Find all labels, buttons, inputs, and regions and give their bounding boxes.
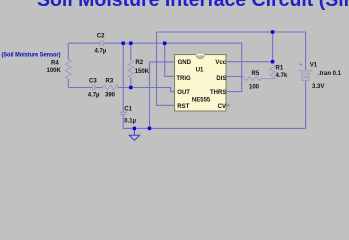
svg-text:R1: R1	[276, 66, 284, 72]
wire: R4 top lead	[67, 43, 69, 59]
node ground tap	[133, 127, 136, 130]
node C2/C1	[122, 42, 125, 45]
wire: DIS pin to R5	[226, 76, 243, 78]
node C2/TRIG	[163, 42, 166, 45]
svg-text:U1: U1	[196, 67, 204, 73]
resistor R5	[243, 77, 260, 81]
resistor R2	[128, 60, 133, 78]
svg-text:(Soil Moisture Sensor): (Soil Moisture Sensor)	[2, 52, 61, 58]
svg-text:4.7k: 4.7k	[276, 73, 288, 79]
wire: GND pin to ground vertical	[150, 62, 175, 128]
svg-text:0.1µ: 0.1µ	[124, 118, 136, 124]
svg-text:C2: C2	[97, 33, 105, 39]
node Vcc/R1	[271, 60, 274, 63]
svg-text:RST: RST	[177, 104, 189, 110]
svg-text:R2: R2	[135, 60, 143, 66]
battery V1	[298, 71, 313, 81]
wire: R1 top to top rail	[272, 32, 274, 62]
wire: Vcc pin to R1 top	[226, 61, 273, 63]
wire: top rail VCC	[157, 31, 306, 33]
svg-text:THRS: THRS	[210, 90, 226, 96]
svg-text:C1: C1	[124, 107, 132, 113]
wire: RST pin up to top rail	[157, 32, 175, 105]
wire: R3 to C3	[95, 87, 103, 89]
svg-text:GND: GND	[178, 60, 192, 66]
svg-text:100: 100	[249, 84, 260, 90]
capacitor C1	[120, 112, 128, 114]
svg-text:V1: V1	[310, 62, 318, 68]
svg-text:OUT: OUT	[177, 90, 190, 96]
svg-text:Soil Moisture Interface Circui: Soil Moisture Interface Circuit (Sim	[37, 0, 349, 11]
battery plus sign	[299, 63, 302, 66]
svg-text:390: 390	[105, 93, 116, 99]
svg-text:R4: R4	[51, 60, 59, 66]
svg-text:4.7µ: 4.7µ	[88, 93, 100, 99]
svg-text:Vcc: Vcc	[215, 60, 226, 66]
resistor R1	[270, 65, 275, 80]
node R2/R3	[129, 86, 132, 89]
wire: TRIG pin to C2 row	[165, 43, 175, 76]
wire: C1 column bottom, bottom rail	[123, 115, 305, 129]
ground	[129, 128, 139, 140]
svg-text:4.7µ: 4.7µ	[95, 49, 107, 55]
svg-text:3.3V: 3.3V	[312, 84, 324, 90]
resistor R3	[103, 85, 119, 90]
wire: R2 bottom lead	[130, 78, 132, 88]
capacitor C2	[100, 40, 103, 46]
svg-text:CV: CV	[218, 104, 226, 110]
svg-text:150K: 150K	[135, 69, 150, 75]
resistor R4	[65, 60, 71, 79]
wire: R5-R1 junction lead	[261, 78, 273, 80]
wire: C1 column top	[122, 43, 124, 112]
svg-text:DIS: DIS	[216, 76, 226, 82]
svg-text:.tran 0.1: .tran 0.1	[318, 71, 342, 77]
wire: C2 row left (R4 top to C2 plate)	[68, 42, 100, 44]
svg-text:100K: 100K	[47, 68, 62, 74]
svg-text:NE555: NE555	[192, 98, 211, 104]
svg-text:R3: R3	[106, 79, 114, 85]
wire: battery top lead	[305, 32, 307, 70]
wire: C3 to R4 bottom	[68, 87, 92, 89]
wire: R4 bottom lead	[67, 79, 69, 88]
wire: battery bottom lead	[305, 81, 307, 128]
svg-text:TRIG: TRIG	[176, 76, 191, 82]
wire: C2 row right (C2 plate to corner, down to THRS)	[103, 43, 242, 91]
node gnd-wire tap	[148, 127, 151, 130]
node C2/R2	[129, 42, 132, 45]
svg-text:R5: R5	[252, 71, 260, 77]
capacitor C3	[93, 85, 95, 91]
node top rail / R1	[271, 30, 274, 33]
wire: CV stub	[226, 104, 229, 106]
wire: R2 top lead	[130, 43, 132, 60]
op-amp U1 NE555 body	[175, 55, 226, 111]
wire: OUT pin jog to R3 row	[118, 88, 175, 92]
CV stub end	[227, 104, 229, 106]
svg-text:C3: C3	[89, 79, 97, 85]
